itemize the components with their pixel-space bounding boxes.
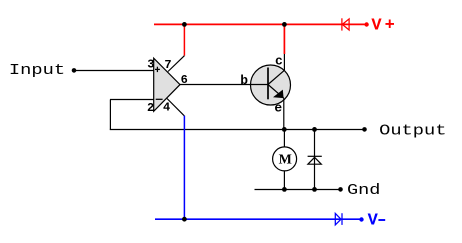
wire: V+ red rail — [154, 23, 367, 25]
wire: V- drop from pin 4 — [183, 116, 185, 220]
diode D3 (polarity protection, blue, on V- rail) — [335, 213, 342, 225]
motor M1 — [273, 130, 297, 190]
svg-text:e: e — [274, 100, 282, 115]
wire: ground line — [255, 189, 341, 191]
svg-text:2: 2 — [147, 101, 154, 115]
svg-text:b: b — [240, 73, 248, 88]
svg-text:3: 3 — [147, 58, 154, 72]
svg-text:V: V — [371, 17, 382, 36]
wire: pin 6 to transistor base — [180, 84, 268, 86]
terminal dot V+ — [364, 22, 368, 26]
wire: feedback vertical — [109, 100, 111, 130]
wire: emitter down to output line — [283, 98, 285, 129]
terminal dot Gnd — [338, 187, 343, 192]
svg-text:Output: Output — [379, 122, 446, 139]
wire: output/emitter horizontal line — [110, 129, 365, 131]
transistor Q1 — [251, 65, 291, 105]
svg-text:M: M — [279, 152, 292, 167]
junction: pin-7 drop on V+ rail — [182, 22, 187, 27]
terminal dot Input — [72, 68, 77, 73]
svg-text:Gnd: Gnd — [347, 182, 380, 199]
svg-text:V: V — [368, 212, 379, 231]
wire: pin 7 stub — [168, 56, 184, 72]
junction: collector drop on V+ rail — [282, 22, 287, 27]
wire: red drop to transistor collector — [283, 24, 285, 54]
junction: emitter on output line — [282, 127, 287, 132]
wire: V- blue rail — [155, 218, 362, 220]
wire: collector up — [283, 54, 285, 70]
svg-text:4: 4 — [163, 100, 170, 114]
wire: Input lead — [74, 70, 154, 72]
svg-text:Input: Input — [9, 62, 65, 79]
diode D2 (flyback across motor) — [308, 130, 322, 190]
svg-text:+: + — [385, 16, 395, 35]
wire: pin 2 feedback horizontal — [110, 99, 154, 101]
terminal dot Output — [362, 127, 367, 132]
diode D1 (polarity protection, red, on V+ rail) — [342, 18, 349, 30]
junction: motor on ground line — [282, 187, 287, 192]
op-amp U1 — [154, 58, 180, 111]
wire: red drop to op-amp pin 7 — [183, 24, 185, 55]
junction: diode on ground line — [312, 187, 317, 192]
terminal dot V- — [359, 217, 363, 221]
svg-text:c: c — [275, 53, 283, 68]
wire: pin 4 stub — [167, 99, 184, 116]
junction: flyback diode on output line — [312, 127, 317, 132]
junction: pin-4 drop on V- rail — [182, 217, 187, 222]
